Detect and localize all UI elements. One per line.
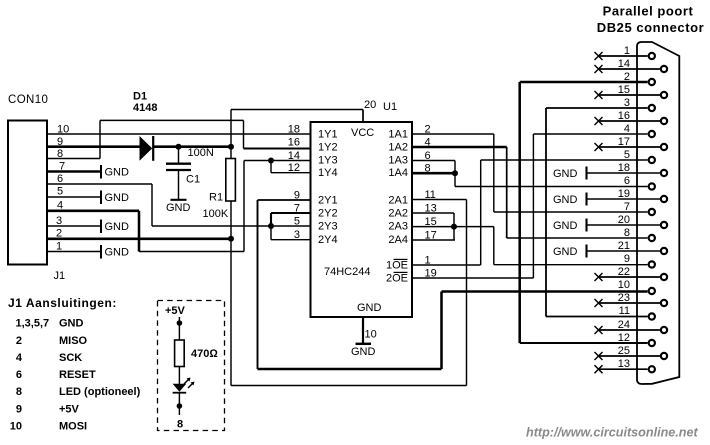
ground bar C1 bbox=[171, 199, 187, 201]
svg-text:GND: GND bbox=[105, 192, 130, 204]
wire SCK to 1Y3 dot bbox=[244, 160, 271, 162]
svg-text:1Y2: 1Y2 bbox=[318, 142, 338, 154]
svg-text:GND: GND bbox=[59, 318, 84, 330]
wire SCK riser at x244 bbox=[243, 161, 245, 252]
svg-text:10: 10 bbox=[618, 279, 630, 291]
svg-text:LED (optioneel): LED (optioneel) bbox=[59, 386, 141, 398]
junction dot 1A4 bbox=[452, 170, 458, 176]
svg-text:16: 16 bbox=[618, 110, 630, 122]
wire MISO-out to DB25 pin10 bbox=[442, 290, 648, 293]
wire LED to pin8 node bbox=[178, 393, 180, 415]
svg-text:1Y3: 1Y3 bbox=[318, 155, 338, 167]
svg-text:Parallel poort: Parallel poort bbox=[603, 4, 694, 19]
wire 1A1 to DB25 pin7 bbox=[494, 211, 648, 213]
svg-text:8: 8 bbox=[624, 227, 630, 239]
wire MISO bottom run bbox=[231, 385, 467, 387]
svg-text:GND: GND bbox=[553, 246, 578, 258]
svg-text:2: 2 bbox=[16, 335, 22, 347]
svg-text:GND: GND bbox=[105, 167, 130, 179]
wire DB25 pin23 NC bbox=[595, 299, 661, 307]
svg-text:22: 22 bbox=[618, 266, 630, 278]
svg-text:2A2: 2A2 bbox=[388, 208, 408, 220]
capacitor C1 plates bbox=[166, 164, 191, 170]
wire 2A1 (pin 11) bbox=[412, 199, 467, 201]
svg-text:3: 3 bbox=[56, 215, 62, 227]
legend row 6 RESET bbox=[16, 369, 96, 381]
wire RESET drop at x152 bbox=[151, 184, 153, 226]
wire 1A2 to DB25 pin8 bbox=[507, 237, 648, 239]
wire MISO-out bottom run bbox=[258, 368, 442, 371]
svg-text:GND: GND bbox=[553, 220, 578, 232]
wire 2Y2 (pin 7) bbox=[271, 212, 310, 214]
wire J1 pin4 (SCK) horizontal bbox=[47, 210, 139, 213]
svg-text:VCC: VCC bbox=[351, 127, 374, 139]
LED triangle bbox=[173, 384, 187, 392]
svg-text:6: 6 bbox=[57, 173, 63, 185]
DB25 pin number labels bbox=[618, 45, 630, 370]
svg-text:20: 20 bbox=[618, 214, 630, 226]
svg-text:GND: GND bbox=[553, 168, 578, 180]
dashed box optional LED circuit bbox=[158, 301, 225, 431]
wire pin3-pin11 drop at x546 bbox=[545, 108, 547, 317]
wire SCK bottom run bbox=[139, 251, 244, 253]
svg-text:9: 9 bbox=[16, 403, 22, 415]
wire MISO riser to 2A1 bbox=[466, 200, 468, 386]
svg-text:3: 3 bbox=[624, 97, 630, 109]
svg-text:GND: GND bbox=[105, 247, 130, 259]
svg-text:25: 25 bbox=[618, 345, 630, 357]
svg-text:1Y1: 1Y1 bbox=[318, 129, 338, 141]
svg-text:12: 12 bbox=[618, 332, 630, 344]
wire J1 pin1 to GND bbox=[47, 251, 101, 253]
wire 1OE riser at x480.7 bbox=[480, 160, 482, 265]
wire DB25 pin14 NC bbox=[595, 65, 661, 73]
wire 2A net drop at x493.8 bbox=[493, 227, 495, 265]
wire DB25 pin1 NC bbox=[595, 52, 648, 60]
svg-text:100N: 100N bbox=[188, 147, 214, 159]
svg-text:18: 18 bbox=[618, 162, 630, 174]
svg-text:MISO: MISO bbox=[59, 335, 88, 347]
svg-text:1,3,5,7: 1,3,5,7 bbox=[16, 318, 50, 330]
wire 2OE to DB25 pin4 bbox=[533, 133, 647, 135]
svg-text:GND: GND bbox=[166, 202, 191, 214]
wire +5V to resistor bbox=[178, 317, 180, 340]
wire LED net drop at x243.5 bbox=[243, 120, 245, 148]
svg-text:R1: R1 bbox=[209, 192, 223, 204]
wire 2Y3 to 2Y4 link bbox=[270, 226, 272, 240]
DB25 pin circles left column bbox=[649, 53, 655, 373]
label 2OE with overline bbox=[386, 272, 408, 284]
svg-text:6: 6 bbox=[624, 175, 630, 187]
wire DB25 pin2 bbox=[520, 81, 648, 84]
svg-text:19: 19 bbox=[618, 188, 630, 200]
wire J1 pin10 to U1 pin18 (MOSI net) bbox=[47, 133, 310, 135]
wire 1Y3 dot-link horizontal bbox=[271, 160, 310, 162]
svg-text:GND: GND bbox=[553, 194, 578, 206]
wire 1OE (pin 1) bbox=[412, 264, 481, 266]
svg-text:GND: GND bbox=[357, 302, 382, 314]
svg-text:GND: GND bbox=[351, 346, 376, 358]
svg-text:J1 Aansluitingen:: J1 Aansluitingen: bbox=[8, 296, 117, 310]
wire 2A3 (pin 15) bbox=[412, 226, 454, 228]
svg-text:DB25 connector: DB25 connector bbox=[597, 20, 704, 35]
svg-text:13: 13 bbox=[618, 358, 630, 370]
legend row 4 SCK bbox=[16, 352, 82, 364]
resistor R1 top lead bbox=[230, 147, 232, 159]
svg-text:1A2: 1A2 bbox=[388, 142, 408, 154]
connector J1 (CON10) body bbox=[8, 121, 47, 265]
svg-text:1: 1 bbox=[624, 45, 630, 57]
resistor R1 bottom lead to MISO dot bbox=[230, 201, 232, 239]
wire J1 pin7 to GND bbox=[47, 170, 101, 173]
wire 1OE to DB25 pin5 bbox=[481, 159, 648, 161]
svg-text:1A1: 1A1 bbox=[388, 129, 408, 141]
wire J1 pin6 (RESET) horizontal bbox=[47, 183, 152, 185]
svg-text:1A4: 1A4 bbox=[388, 167, 408, 179]
wire resistor to LED bbox=[178, 367, 180, 385]
wire DB25 pin16 NC bbox=[595, 117, 661, 125]
svg-text:MOSI: MOSI bbox=[59, 421, 87, 433]
wire 2A2 drop to 2A4 bbox=[453, 213, 455, 240]
wire J1 pin8 (LED net) horizontal bbox=[47, 158, 100, 160]
svg-text:+5V: +5V bbox=[59, 403, 80, 415]
wire diode cathode to +5V node bbox=[154, 145, 232, 148]
wire DB25 pin11 bbox=[546, 316, 648, 318]
wire 1A3 drop to 1A4 bbox=[454, 161, 456, 187]
wire VCC stub into U1 pin20 bbox=[362, 110, 364, 123]
svg-text:2Y4: 2Y4 bbox=[318, 234, 338, 246]
DB25 pin circles right column bbox=[661, 66, 667, 359]
svg-text:14: 14 bbox=[618, 58, 630, 70]
ground bar pin7 bbox=[100, 165, 102, 179]
wire 1Y4 (pin 12) bbox=[271, 172, 310, 174]
wire DB25 pin20 GND bbox=[587, 219, 661, 232]
svg-text:5: 5 bbox=[624, 149, 630, 161]
wire 2A net to riser bbox=[454, 226, 494, 228]
wire 2A2 (pin 13) bbox=[412, 212, 454, 214]
svg-text:+5V: +5V bbox=[165, 305, 186, 317]
svg-text:GND: GND bbox=[105, 221, 130, 233]
wire VCC rail to pin20 bbox=[231, 109, 363, 111]
svg-text:16: 16 bbox=[288, 137, 300, 149]
ground bar pin5 bbox=[100, 191, 102, 205]
svg-text:17: 17 bbox=[618, 136, 630, 148]
wire J1 pin2 (MISO) bbox=[47, 238, 231, 241]
svg-text:U1: U1 bbox=[383, 101, 397, 113]
wire 2Y3 (pin 5) bbox=[271, 225, 310, 227]
svg-text:1Y4: 1Y4 bbox=[318, 167, 338, 179]
svg-text:1: 1 bbox=[56, 241, 62, 253]
ground bar U1 bbox=[356, 343, 372, 345]
wire MISO down to bottom run bbox=[230, 239, 232, 386]
wire 2OE riser at x533.4 bbox=[532, 134, 534, 278]
svg-text:470Ω: 470Ω bbox=[191, 348, 218, 360]
legend row 10 MOSI bbox=[10, 421, 87, 433]
wire 1A2 drop at x506.7 bbox=[506, 147, 508, 238]
wire 1A3/1A4 to DB25 pin6 bbox=[455, 186, 648, 188]
junction dot MISO / R1 bottom bbox=[228, 236, 234, 242]
wire MISO-out riser at x441.5 bbox=[440, 292, 443, 370]
svg-text:2Y3: 2Y3 bbox=[318, 221, 338, 233]
svg-text:4: 4 bbox=[624, 123, 630, 135]
svg-text:RESET: RESET bbox=[59, 369, 96, 381]
svg-text:21: 21 bbox=[618, 240, 630, 252]
junction dot 1Y3 bbox=[268, 158, 274, 164]
wire DB25 pin18 GND bbox=[587, 167, 661, 180]
junction dot +5V / R1 top bbox=[228, 144, 234, 150]
wire 1A1 (pin 2) bbox=[412, 133, 494, 135]
resistor 470 ohm body bbox=[175, 340, 185, 367]
wire RESET to 2Y3 dot bbox=[152, 225, 271, 227]
wire pin2-pin12 drop at x519.7 bbox=[518, 82, 521, 343]
wire 1A3 (pin 6) bbox=[412, 160, 455, 162]
node dot pin8 bbox=[177, 403, 183, 409]
svg-text:http://www.circuitsonline.net: http://www.circuitsonline.net bbox=[526, 426, 698, 440]
svg-text:2A4: 2A4 bbox=[388, 234, 408, 246]
svg-text:11: 11 bbox=[619, 305, 630, 317]
svg-text:6: 6 bbox=[16, 369, 22, 381]
wire DB25 pin24 NC bbox=[595, 326, 661, 334]
wire DB25 pin19 GND bbox=[587, 193, 661, 206]
LED arrows bbox=[184, 378, 195, 389]
wire LED net top rail bbox=[100, 119, 244, 121]
junction dot C1 top bbox=[176, 144, 182, 150]
op-amp buffer U1 74HC244 body bbox=[311, 122, 413, 317]
wire 1A1 drop at x493.8 bbox=[493, 134, 495, 212]
wire J1 pin5 to GND bbox=[47, 196, 101, 198]
wire 2A net to DB25 pin9 bbox=[494, 264, 648, 266]
resistor R1 body bbox=[226, 159, 236, 202]
wire LED net to U1 pin16 (1Y2) bbox=[244, 147, 311, 149]
wire DB25 pin21 GND bbox=[587, 245, 661, 258]
wire DB25 pin17 NC bbox=[595, 143, 661, 151]
svg-text:10: 10 bbox=[365, 329, 377, 341]
svg-text:CON10: CON10 bbox=[8, 94, 48, 106]
legend row 8 LED bbox=[16, 386, 141, 398]
wire DB25 pin15 NC bbox=[595, 91, 661, 99]
svg-text:SCK: SCK bbox=[59, 352, 82, 364]
svg-text:4148: 4148 bbox=[133, 102, 157, 114]
svg-text:20: 20 bbox=[364, 99, 376, 111]
wire 1Y3 to 1Y4 link bbox=[270, 161, 272, 173]
wire 2Y1 drop at x257.5 bbox=[257, 200, 259, 369]
wire 2Y2 to 2Y3 link bbox=[270, 213, 272, 226]
wire 2A4 (pin 17) bbox=[412, 239, 455, 241]
svg-text:4: 4 bbox=[16, 352, 23, 364]
legend row 9 +5V bbox=[16, 403, 80, 415]
wire 2Y1 (pin 9) bbox=[258, 199, 311, 201]
wire SCK drop at x139 bbox=[138, 211, 141, 252]
capacitor C1 top lead bbox=[178, 147, 180, 163]
svg-text:24: 24 bbox=[618, 319, 630, 331]
label 1OE with overline bbox=[386, 259, 408, 271]
svg-text:2Y1: 2Y1 bbox=[318, 195, 338, 207]
svg-text:74HC244: 74HC244 bbox=[324, 266, 370, 278]
svg-text:2A3: 2A3 bbox=[388, 221, 408, 233]
svg-text:1OE: 1OE bbox=[386, 260, 408, 272]
wire 1A2 (pin 4) bbox=[412, 146, 507, 149]
svg-text:2Y2: 2Y2 bbox=[318, 208, 338, 220]
svg-text:8: 8 bbox=[177, 419, 183, 431]
wire 2Y4 (pin 3) bbox=[271, 239, 310, 241]
svg-text:18: 18 bbox=[288, 124, 300, 136]
ground bar pin1 bbox=[100, 245, 102, 259]
wire DB25 pin22 NC bbox=[595, 273, 661, 281]
wire +5V node up to VCC rail bbox=[230, 110, 232, 147]
svg-text:J1: J1 bbox=[54, 270, 66, 282]
svg-text:9: 9 bbox=[624, 253, 630, 265]
svg-text:5: 5 bbox=[57, 186, 63, 198]
node dot +5V bbox=[177, 320, 183, 326]
wire DB25 pin13 NC bbox=[595, 365, 648, 373]
svg-text:23: 23 bbox=[618, 292, 630, 304]
legend row 1,3,5,7 GND bbox=[16, 318, 84, 330]
wire J1 pin3 to GND bbox=[47, 225, 101, 227]
svg-text:15: 15 bbox=[618, 84, 630, 96]
svg-text:C1: C1 bbox=[186, 174, 200, 186]
svg-text:7: 7 bbox=[624, 201, 630, 213]
ground bar pin3 bbox=[100, 220, 102, 234]
wire DB25 pin12 bbox=[520, 342, 648, 344]
svg-text:2: 2 bbox=[624, 71, 630, 83]
LED cathode bar bbox=[173, 392, 187, 394]
svg-text:10: 10 bbox=[10, 421, 22, 433]
svg-text:2A1: 2A1 bbox=[388, 195, 408, 207]
diode D1 body bbox=[140, 136, 154, 161]
junction dot 2Y3 bbox=[268, 223, 274, 229]
wire DB25 pin25 NC bbox=[595, 352, 661, 360]
wire U1 GND stub pin10 bbox=[362, 317, 364, 343]
connector DB25 body bbox=[637, 42, 679, 384]
wire LED net riser at x100 bbox=[99, 120, 101, 158]
legend row 2 MISO bbox=[16, 335, 88, 347]
svg-text:D1: D1 bbox=[133, 91, 147, 103]
junction dot 2A3 bbox=[451, 224, 457, 230]
wire DB25 pin3 bbox=[546, 107, 648, 109]
wire 1A4 (pin 8) bbox=[412, 172, 455, 175]
wire J1 pin9 to diode anode (+5V net) bbox=[47, 145, 140, 148]
capacitor C1 bottom lead bbox=[178, 170, 180, 199]
svg-text:1A3: 1A3 bbox=[388, 155, 408, 167]
svg-text:8: 8 bbox=[16, 386, 22, 398]
svg-text:100K: 100K bbox=[203, 208, 229, 220]
svg-text:2OE: 2OE bbox=[386, 273, 408, 285]
wire 2OE (pin 19) bbox=[412, 277, 533, 279]
